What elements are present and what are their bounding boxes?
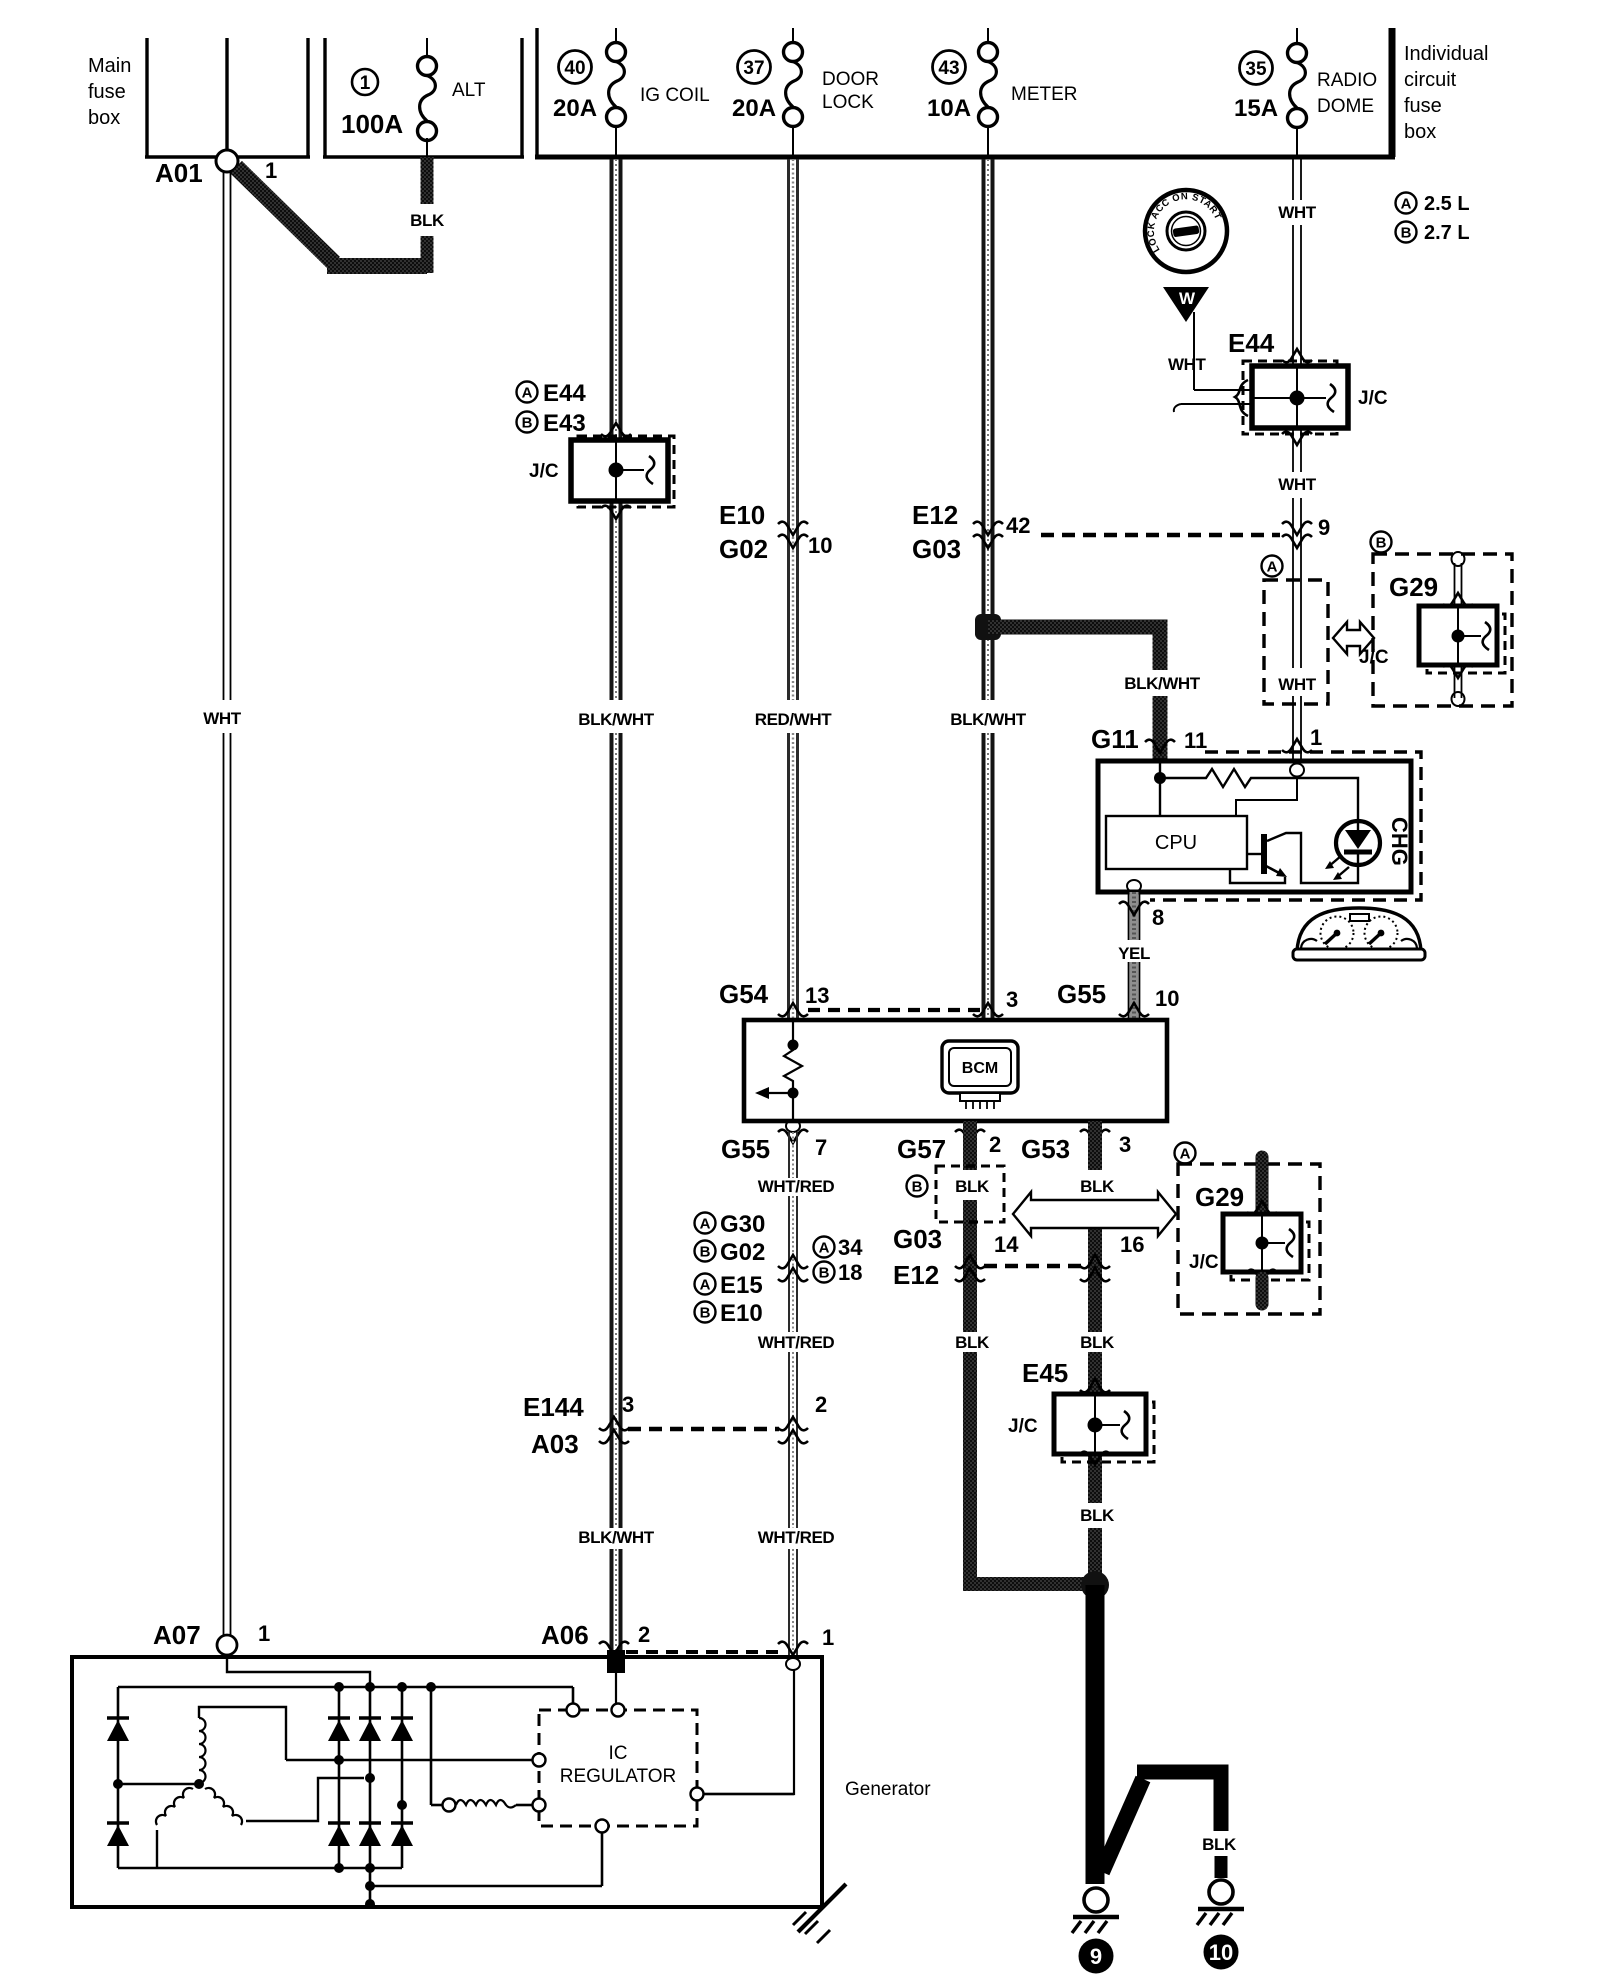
svg-text:G53: G53: [1021, 1134, 1070, 1164]
svg-text:WHT: WHT: [1278, 675, 1317, 694]
svg-text:3: 3: [1119, 1132, 1131, 1157]
svg-text:WHT/RED: WHT/RED: [758, 1333, 835, 1352]
svg-text:CPU: CPU: [1155, 832, 1197, 854]
svg-text:1: 1: [360, 73, 371, 94]
svg-text:8: 8: [1152, 905, 1164, 930]
svg-text:WHT/RED: WHT/RED: [758, 1177, 835, 1196]
svg-text:BLK/WHT: BLK/WHT: [950, 710, 1027, 729]
svg-text:box: box: [1404, 121, 1436, 143]
svg-text:E45: E45: [1022, 1358, 1068, 1388]
svg-text:J/C: J/C: [529, 461, 559, 482]
svg-text:DOOR: DOOR: [822, 69, 879, 90]
svg-text:2.7 L: 2.7 L: [1424, 222, 1470, 244]
svg-text:E10: E10: [720, 1300, 763, 1327]
svg-text:1: 1: [258, 1621, 270, 1646]
svg-text:1: 1: [265, 158, 277, 183]
svg-text:DOME: DOME: [1317, 96, 1374, 117]
svg-text:WHT: WHT: [1278, 203, 1317, 222]
svg-text:W: W: [1179, 289, 1196, 308]
svg-text:G55: G55: [721, 1134, 770, 1164]
svg-text:15A: 15A: [1234, 95, 1278, 122]
svg-text:1: 1: [822, 1625, 834, 1650]
svg-text:G03: G03: [912, 534, 961, 564]
svg-text:10: 10: [808, 533, 832, 558]
svg-text:G55: G55: [1057, 979, 1106, 1009]
svg-text:G11: G11: [1091, 724, 1139, 754]
svg-text:20A: 20A: [553, 95, 597, 122]
svg-text:G02: G02: [720, 1239, 765, 1266]
svg-text:WHT/RED: WHT/RED: [758, 1528, 835, 1547]
svg-text:BLK: BLK: [1080, 1333, 1115, 1352]
svg-text:BLK: BLK: [1080, 1506, 1115, 1525]
svg-text:35: 35: [1245, 59, 1267, 80]
svg-text:RED/WHT: RED/WHT: [755, 710, 833, 729]
svg-text:G29: G29: [1195, 1182, 1244, 1212]
svg-text:J/C: J/C: [1358, 388, 1388, 409]
svg-text:RADIO: RADIO: [1317, 70, 1377, 91]
svg-text:Generator: Generator: [845, 1779, 931, 1800]
svg-text:E44: E44: [543, 380, 586, 407]
svg-text:E10: E10: [719, 500, 765, 530]
svg-text:circuit: circuit: [1404, 69, 1457, 91]
svg-text:E15: E15: [720, 1272, 763, 1299]
svg-text:A06: A06: [541, 1620, 589, 1650]
svg-text:A03: A03: [531, 1429, 579, 1459]
svg-text:3: 3: [1006, 987, 1018, 1012]
svg-text:BLK: BLK: [1080, 1177, 1115, 1196]
svg-text:E12: E12: [912, 500, 958, 530]
svg-text:BLK: BLK: [955, 1177, 990, 1196]
svg-text:WHT: WHT: [203, 709, 242, 728]
svg-text:37: 37: [743, 58, 764, 79]
svg-text:9: 9: [1090, 1944, 1102, 1969]
svg-text:18: 18: [838, 1260, 862, 1285]
svg-text:11: 11: [1184, 728, 1207, 753]
svg-text:E44: E44: [1228, 328, 1275, 358]
svg-text:13: 13: [805, 983, 829, 1008]
svg-text:A01: A01: [155, 158, 203, 188]
svg-text:ALT: ALT: [452, 80, 486, 101]
svg-text:40: 40: [564, 58, 585, 79]
svg-text:CHG: CHG: [1387, 817, 1412, 866]
svg-text:G02: G02: [719, 534, 768, 564]
svg-text:7: 7: [815, 1135, 827, 1160]
svg-text:G54: G54: [719, 979, 769, 1009]
svg-text:42: 42: [1006, 513, 1030, 538]
svg-text:20A: 20A: [732, 95, 776, 122]
svg-text:J/C: J/C: [1189, 1252, 1219, 1273]
svg-text:2: 2: [815, 1392, 827, 1417]
svg-text:E144: E144: [523, 1392, 584, 1422]
svg-text:43: 43: [938, 58, 959, 79]
svg-text:G29: G29: [1389, 572, 1438, 602]
svg-text:METER: METER: [1011, 84, 1078, 105]
svg-text:J/C: J/C: [1008, 1416, 1038, 1437]
svg-text:Individual: Individual: [1404, 43, 1489, 65]
svg-text:G30: G30: [720, 1211, 765, 1238]
svg-text:J/C: J/C: [1359, 647, 1389, 668]
svg-text:G03: G03: [893, 1224, 942, 1254]
svg-text:fuse: fuse: [1404, 95, 1442, 117]
svg-text:BLK/WHT: BLK/WHT: [578, 710, 655, 729]
svg-text:BLK/WHT: BLK/WHT: [578, 1528, 655, 1547]
svg-text:34: 34: [838, 1235, 863, 1260]
svg-text:IG COIL: IG COIL: [640, 85, 710, 106]
svg-text:BLK: BLK: [410, 211, 445, 230]
svg-text:WHT: WHT: [1168, 355, 1207, 374]
svg-text:Main: Main: [88, 55, 131, 77]
svg-text:2: 2: [638, 1622, 650, 1647]
svg-text:9: 9: [1318, 515, 1330, 540]
svg-text:WHT: WHT: [1278, 475, 1317, 494]
svg-text:BLK: BLK: [955, 1333, 990, 1352]
svg-text:fuse: fuse: [88, 81, 126, 103]
svg-text:REGULATOR: REGULATOR: [560, 1766, 677, 1787]
svg-text:100A: 100A: [341, 109, 403, 139]
svg-text:LOCK: LOCK: [822, 92, 874, 113]
svg-text:16: 16: [1120, 1232, 1144, 1257]
svg-text:G57: G57: [897, 1134, 946, 1164]
svg-text:YEL: YEL: [1118, 944, 1150, 963]
svg-text:10: 10: [1209, 1940, 1233, 1965]
svg-text:2: 2: [989, 1132, 1001, 1157]
svg-text:14: 14: [994, 1232, 1019, 1257]
svg-text:3: 3: [622, 1392, 634, 1417]
svg-text:IC: IC: [609, 1743, 628, 1764]
svg-text:10: 10: [1155, 986, 1179, 1011]
svg-text:BCM: BCM: [962, 1060, 998, 1077]
svg-text:A07: A07: [153, 1620, 201, 1650]
svg-text:box: box: [88, 107, 120, 129]
svg-text:1: 1: [1310, 725, 1322, 750]
svg-text:E43: E43: [543, 410, 586, 437]
svg-text:2.5 L: 2.5 L: [1424, 193, 1470, 215]
svg-text:BLK/WHT: BLK/WHT: [1124, 674, 1201, 693]
svg-text:BLK: BLK: [1202, 1835, 1237, 1854]
svg-text:E12: E12: [893, 1260, 939, 1290]
svg-text:10A: 10A: [927, 95, 971, 122]
